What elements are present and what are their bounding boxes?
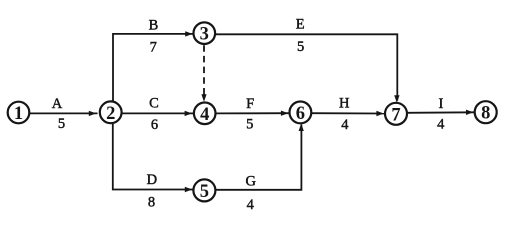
svg-text:C: C xyxy=(149,96,159,112)
svg-text:1: 1 xyxy=(14,104,23,124)
svg-text:B: B xyxy=(149,17,159,33)
wire H: arrow from node 6 to node 7 xyxy=(312,111,385,116)
node 7 xyxy=(385,103,407,126)
wire I: arrow from node 7 to node 8 xyxy=(407,110,474,115)
svg-text:8: 8 xyxy=(481,104,490,124)
svg-text:I: I xyxy=(438,96,443,112)
svg-text:2: 2 xyxy=(106,104,115,124)
svg-text:3: 3 xyxy=(200,25,209,45)
svg-text:4: 4 xyxy=(247,197,255,213)
wire D: from node 2 down then right to node 5 xyxy=(113,123,193,192)
wire B: from node 2 up then right to node 3 xyxy=(113,31,193,102)
dummy activity: dashed arrow from node 3 down to node 4 xyxy=(201,45,206,102)
node 3 xyxy=(194,22,216,44)
svg-text:4: 4 xyxy=(341,117,349,133)
svg-text:6: 6 xyxy=(296,104,305,124)
svg-text:4: 4 xyxy=(437,116,445,132)
wire F: arrow from node 4 to node 6 xyxy=(216,111,289,116)
svg-text:E: E xyxy=(296,17,305,33)
svg-text:8: 8 xyxy=(148,194,155,210)
svg-text:7: 7 xyxy=(150,40,157,56)
svg-text:7: 7 xyxy=(391,105,400,125)
wire A: arrow from node 1 to node 2 xyxy=(29,111,97,116)
svg-text:5: 5 xyxy=(58,116,65,132)
node 8 xyxy=(475,101,497,124)
svg-text:G: G xyxy=(246,174,257,190)
svg-text:D: D xyxy=(147,172,157,188)
node 5 xyxy=(193,179,215,202)
wire E: from node 3 right then down to node 7 xyxy=(215,34,399,103)
wire C: arrow from node 2 to node 4 xyxy=(122,111,193,116)
svg-text:H: H xyxy=(339,96,350,112)
node 2 xyxy=(100,101,122,123)
svg-text:A: A xyxy=(52,96,63,112)
svg-text:4: 4 xyxy=(200,105,209,125)
svg-text:5: 5 xyxy=(200,182,209,202)
svg-text:6: 6 xyxy=(151,117,158,133)
svg-text:5: 5 xyxy=(246,117,253,133)
wire G: from node 5 right then up to node 6 xyxy=(215,123,303,189)
node 1 xyxy=(8,102,30,124)
svg-text:F: F xyxy=(246,96,254,112)
node 4 xyxy=(194,103,216,125)
svg-text:5: 5 xyxy=(297,39,304,55)
node 6 xyxy=(290,102,312,124)
